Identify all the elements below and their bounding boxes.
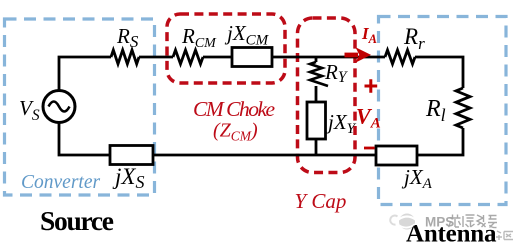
- watermark corner pseudo glyphs (social): [496, 231, 513, 240]
- reactance box jXY: [307, 102, 326, 139]
- svg-text:VS: VS: [19, 96, 40, 124]
- watermark pseudo glyphs (芯源系统): [449, 215, 498, 228]
- svg-text:RY: RY: [324, 60, 348, 86]
- resistor RY vertical: [310, 62, 328, 86]
- svg-text:(ZCM): (ZCM): [213, 120, 258, 144]
- svg-text:RS: RS: [116, 24, 139, 51]
- svg-text:CM Choke: CM Choke: [193, 97, 276, 121]
- reactance box jXA: [376, 146, 417, 165]
- resistor RS: [111, 50, 139, 64]
- wire RS to RCM: [139, 56, 173, 59]
- svg-text:IA: IA: [361, 24, 377, 46]
- svg-text:jXCM: jXCM: [224, 21, 270, 49]
- Y branch: wire from top: [315, 57, 318, 62]
- reactance box jXS: [110, 146, 153, 165]
- wire XCM to Rr (continuous under arrow): [272, 56, 385, 59]
- svg-text:Rl: Rl: [425, 96, 446, 125]
- CM choke dashed box: [167, 14, 285, 83]
- resistor Rr: [385, 50, 415, 64]
- wire jXY to bottom: [315, 139, 318, 155]
- svg-text:jXS: jXS: [112, 164, 144, 192]
- wire RY to jXY: [315, 86, 318, 102]
- svg-text:Source: Source: [40, 205, 114, 236]
- svg-text:VA: VA: [356, 104, 381, 132]
- source converter dashed box: [5, 19, 155, 195]
- svg-text:Y Cap: Y Cap: [295, 189, 347, 213]
- label plus red: [365, 79, 378, 93]
- svg-text:Converter: Converter: [21, 172, 100, 193]
- watermark logo: [390, 214, 415, 230]
- svg-text:Rr: Rr: [403, 24, 425, 53]
- svg-text:RCM: RCM: [181, 24, 217, 51]
- wire Rl down to bottom and left to jXA: [417, 128, 463, 155]
- bottom wire jXS to VS: [59, 122, 110, 155]
- Y cap dashed box: [298, 18, 356, 173]
- reactance box jXCM: [232, 48, 272, 67]
- wire top left: [59, 57, 111, 91]
- svg-text:jXA: jXA: [401, 165, 433, 192]
- resistor Rl vertical: [456, 88, 470, 128]
- antenna dashed box: [379, 17, 507, 205]
- wire RCM to XCM: [203, 56, 232, 59]
- AC source VS circle: [43, 91, 75, 123]
- minus sign of VA: [364, 147, 375, 150]
- wire Rr to corner and down: [415, 57, 463, 88]
- current arrow IA: [345, 53, 359, 58]
- svg-text:jXY: jXY: [325, 110, 357, 137]
- bottom wire jXA to Y junction to jXS: [153, 154, 376, 157]
- resistor RCM: [173, 50, 203, 64]
